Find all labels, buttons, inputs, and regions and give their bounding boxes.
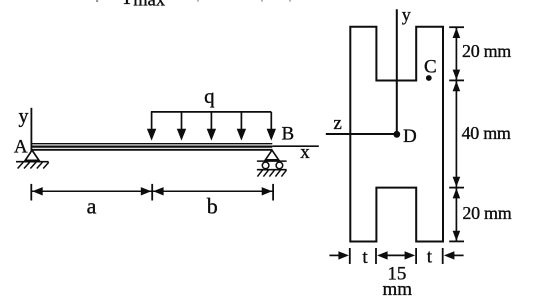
svg-text:A: A (14, 136, 28, 157)
svg-text:z: z (333, 113, 341, 134)
beam (three parallel lines from A to B) (31, 144, 272, 150)
z axis (section) (326, 133, 397, 135)
cropped caption fragment "T_max" at top (96, 0, 291, 10)
dimension 20 mm (bottom flange) (453, 188, 461, 241)
15 mm double arrow (377, 251, 415, 259)
svg-text:40 mm: 40 mm (462, 123, 511, 143)
right t arrow (444, 251, 464, 259)
svg-text:a: a (87, 194, 97, 219)
svg-text:t: t (427, 247, 433, 268)
y axis (beam figure) (30, 108, 32, 151)
svg-text:D: D (403, 126, 417, 147)
pin support at A (16, 150, 49, 168)
svg-text:C: C (424, 57, 437, 78)
x axis (272, 145, 319, 147)
svg-text:B: B (282, 123, 295, 144)
load arrow 3 (207, 112, 216, 141)
svg-text:20 mm: 20 mm (462, 41, 511, 61)
y axis (section) (396, 9, 398, 134)
point C (426, 75, 432, 81)
right dimension chain: extension ticks (449, 27, 464, 241)
svg-text:mm: mm (383, 279, 413, 300)
point D (centroid) (393, 131, 400, 138)
svg-text:q: q (204, 84, 215, 108)
left t arrow (329, 251, 349, 259)
load arrow 5 (267, 112, 276, 141)
bottom dimension chain ticks (350, 248, 443, 264)
svg-text:max: max (133, 0, 166, 10)
dimension line a+b under beam (31, 184, 273, 201)
dimension 40 mm (web) (453, 81, 461, 187)
svg-text:t: t (362, 247, 368, 268)
load arrow 4 (237, 112, 246, 141)
svg-text:y: y (402, 5, 411, 25)
distributed load q top line (151, 111, 272, 113)
svg-text:x: x (300, 142, 310, 163)
cross-section outline (350, 27, 443, 242)
load arrow 2 (177, 112, 186, 141)
roller support at B (257, 150, 287, 176)
svg-text:b: b (207, 194, 218, 219)
dimension 20 mm (top flange) (453, 28, 461, 80)
svg-text:y: y (19, 105, 29, 127)
load arrow 1 (147, 112, 156, 141)
svg-text:T: T (121, 0, 133, 9)
svg-text:20 mm: 20 mm (462, 203, 511, 223)
